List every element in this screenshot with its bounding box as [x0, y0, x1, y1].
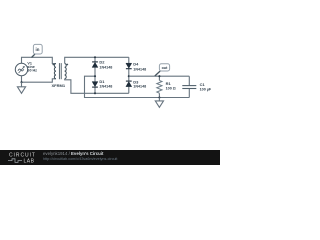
node R1 top — [158, 75, 160, 77]
wire V1 bottom to transformer primary bottom — [22, 76, 56, 83]
svg-text:1N4148: 1N4148 — [99, 85, 112, 89]
svg-text:1N4148: 1N4148 — [99, 65, 112, 69]
wire DC+ output rail — [129, 75, 190, 77]
label C1 value — [200, 82, 212, 92]
svg-text:D4: D4 — [133, 61, 139, 66]
ground (right) — [155, 98, 163, 108]
label D1 — [99, 79, 112, 89]
diode D3 — [126, 76, 132, 93]
svg-text:60 Hz: 60 Hz — [27, 69, 37, 73]
flag out pole — [155, 71, 160, 76]
svg-text:1N4148: 1N4148 — [133, 85, 146, 89]
ground (left) — [17, 82, 25, 93]
diode D2 — [92, 57, 98, 76]
wire DC- from D1/D2 node to bottom rail — [85, 76, 190, 97]
svg-text:100 Ω: 100 Ω — [166, 86, 176, 90]
node D1/D2 mid — [94, 75, 96, 77]
svg-text:XFRM1: XFRM1 — [52, 83, 66, 88]
diode D1 — [92, 76, 98, 93]
flag out — [159, 64, 169, 71]
label D3 — [133, 80, 146, 89]
node V1 bottom junction — [20, 81, 22, 83]
flag in pole — [32, 54, 36, 58]
label D4 — [133, 61, 146, 71]
diode D4 — [126, 57, 132, 76]
svg-text:out: out — [162, 66, 169, 70]
svg-text:R1: R1 — [166, 81, 172, 86]
node D1 bottom — [94, 92, 96, 94]
transformer XFRM1 — [52, 63, 68, 79]
svg-text:100 µF: 100 µF — [200, 87, 212, 91]
voltage source V1 — [15, 63, 27, 75]
wire secondary top rail — [65, 57, 129, 63]
flag in — [33, 44, 42, 54]
wire secondary bottom to bridge node B — [65, 79, 129, 94]
svg-text:http://circuitlab.com/c/43va6m: http://circuitlab.com/c/43va6m/evelyns-c… — [43, 157, 118, 161]
svg-text:LAB: LAB — [24, 159, 35, 165]
svg-text:evelynk1914 / Evelyn’s Circuit: evelynk1914 / Evelyn’s Circuit — [43, 151, 104, 156]
label D2 — [99, 60, 112, 70]
node R1 bottom — [158, 96, 160, 98]
svg-text:1N4148: 1N4148 — [133, 68, 146, 72]
capacitor C1 — [182, 76, 196, 97]
footer bar — [0, 150, 220, 165]
svg-text:C1: C1 — [200, 82, 206, 87]
label R1 value — [166, 81, 176, 91]
svg-text:in: in — [36, 47, 40, 52]
svg-text:D1: D1 — [99, 79, 105, 84]
node D3/D4 mid — [128, 75, 130, 77]
CircuitLab logo — [8, 153, 36, 165]
resistor R1 — [157, 76, 162, 97]
label V1 value — [27, 62, 37, 73]
node top rail / D2 — [94, 56, 96, 58]
wire V1 top to transformer primary top — [22, 57, 56, 63]
svg-text:D2: D2 — [99, 60, 105, 65]
